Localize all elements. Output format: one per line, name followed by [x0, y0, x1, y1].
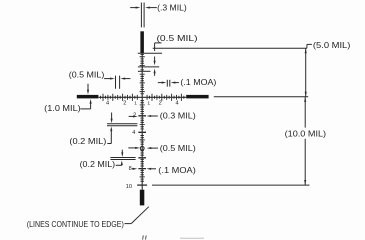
bottom thick post	[140, 190, 145, 206]
svg-text:(.1 MOA): (.1 MOA)	[158, 166, 196, 175]
vertical axis wide ticks	[138, 116, 146, 169]
extension line 5 mil level	[153, 47, 307, 49]
dimension (.1 MOA) upper arrows and ticks	[166, 80, 168, 87]
svg-text:1: 1	[134, 100, 137, 106]
svg-text:(.3 MIL): (.3 MIL)	[157, 3, 187, 12]
svg-text:2: 2	[123, 100, 126, 106]
svg-text:(0.5 MIL): (0.5 MIL)	[160, 144, 196, 153]
svg-text:(LINES CONTINUE TO EDGE): (LINES CONTINUE TO EDGE)	[27, 220, 124, 229]
svg-text:(5.0 MIL): (5.0 MIL)	[313, 41, 351, 50]
svg-text:(.1 MOA): (.1 MOA)	[180, 78, 216, 87]
arrow above left post	[87, 84, 89, 91]
extension line center right	[214, 96, 308, 98]
svg-text:1: 1	[147, 100, 150, 106]
svg-text:4: 4	[106, 100, 109, 106]
svg-text:4: 4	[132, 130, 135, 136]
wire vertical crosshair line	[141, 53, 143, 190]
svg-text:4: 4	[175, 100, 178, 106]
right thick post	[186, 95, 208, 99]
dimension (.1 MOA) lower arrows	[132, 168, 134, 170]
svg-text:(1.0 MIL): (1.0 MIL)	[44, 104, 81, 113]
svg-text:(0.2 MIL): (0.2 MIL)	[69, 137, 106, 146]
dimension (0.5 MIL) left tick pair	[115, 76, 117, 89]
double line pair upper	[107, 123, 137, 125]
circle aiming dot on vertical axis	[140, 146, 144, 150]
svg-text:(0.5 MIL): (0.5 MIL)	[69, 71, 105, 80]
dimension (.3 MIL) top arrows	[130, 7, 136, 9]
long tick 3.0 mil with right extension line	[138, 66, 159, 68]
double line pair lower	[110, 157, 135, 159]
long tick 3.5 mil with right extension line	[138, 70, 151, 72]
dimension (0.3 MIL) arrows	[129, 115, 134, 117]
faint caption remnant	[180, 237, 204, 239]
wire horizontal crosshair line	[99, 96, 187, 98]
svg-text:8: 8	[129, 166, 132, 172]
dimension (0.5 MIL) circle arrows	[128, 147, 135, 149]
vertical axis tick marks	[140, 55, 145, 182]
left thick post	[77, 95, 99, 99]
svg-text:(0.5 MIL): (0.5 MIL)	[157, 34, 198, 43]
svg-text:(0.2 MIL): (0.2 MIL)	[80, 160, 116, 169]
bottom hatch marks	[142, 235, 145, 239]
horizontal axis tick marks	[101, 94, 184, 101]
svg-text:2: 2	[159, 100, 162, 106]
dimension (5.0 MIL) bracket and arrows	[306, 44, 308, 48]
svg-text:10: 10	[126, 184, 132, 190]
dimension (0.5 MIL) upper right leader	[154, 43, 156, 51]
top thick post	[140, 31, 144, 53]
dimension (0.2 MIL) upper arrows	[111, 113, 113, 120]
svg-text:2: 2	[133, 112, 136, 118]
svg-text:(10.0 MIL): (10.0 MIL)	[285, 130, 327, 139]
dimension (0.2 MIL) lower arrows	[121, 150, 123, 154]
extension line 10 mil level	[152, 184, 310, 186]
wide tick at 10 mil	[137, 184, 147, 186]
svg-text:(0.3 MIL): (0.3 MIL)	[160, 111, 196, 120]
dimension (1.0 MIL) bracket	[80, 108, 90, 110]
top fine double line (0.3 mil gap)	[140, 3, 142, 28]
dimension (10.0 MIL) vertical with arrows	[304, 97, 306, 128]
wide tick below top post with right extension	[138, 52, 162, 54]
